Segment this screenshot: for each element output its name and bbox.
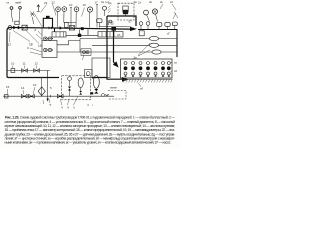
panel feet <box>125 75 170 76</box>
svg-text:тамб: тамб <box>15 1 22 5</box>
wire main supply pipe <box>7 28 132 78</box>
air valve circle b <box>146 22 150 30</box>
svg-text:19: 19 <box>38 44 42 48</box>
pump unit 3 <box>81 49 91 56</box>
shaft line 3 <box>57 51 177 53</box>
cooler box below pipe <box>52 32 66 37</box>
filter diamond <box>38 78 45 97</box>
bottle small <box>78 78 83 91</box>
svg-text:м: м <box>92 76 94 80</box>
coupling oval 3 <box>152 50 161 54</box>
wire bold drop from dashed box <box>107 16 136 26</box>
svg-text:15: 15 <box>6 85 10 89</box>
label 8 9 <box>27 28 37 50</box>
label 10 <box>69 3 73 7</box>
right tank top edge <box>138 30 177 58</box>
valve dark on pipe x61 <box>60 26 63 29</box>
label top-left pipes <box>6 1 22 5</box>
pump pair 2 <box>44 48 53 51</box>
svg-text:5: 5 <box>50 86 52 90</box>
wire return line above pipe <box>99 25 131 28</box>
svg-text:2к: 2к <box>160 0 164 4</box>
air valve circle a <box>139 22 143 30</box>
square valve row1 <box>11 69 15 73</box>
leaders to digits <box>43 96 78 105</box>
dashed box top <box>118 3 134 20</box>
bowtie valve 11 <box>22 69 28 73</box>
gauge 2 <box>62 7 67 23</box>
tank box center <box>92 58 110 78</box>
svg-text:9: 9 <box>27 46 29 50</box>
labels top right <box>138 0 174 4</box>
node junction on outlet <box>78 34 81 37</box>
dash label box bottom <box>108 91 126 100</box>
spring valve 3 <box>165 23 170 30</box>
svg-text:зб: зб <box>174 69 177 73</box>
gauge 5 <box>103 6 107 16</box>
wire pipe drop to pump box <box>41 28 43 41</box>
svg-text:22: 22 <box>52 0 56 4</box>
svg-text:✳: ✳ <box>49 103 52 107</box>
coupling oval 1 <box>149 36 158 40</box>
wire bold branch to panel top <box>114 28 116 65</box>
svg-text:8: 8 <box>35 28 37 32</box>
bowtie valve b2 <box>29 94 35 98</box>
stems row1 labels <box>13 66 37 69</box>
label 26 <box>117 33 121 37</box>
small marks above caption <box>49 103 75 110</box>
svg-text:2з: 2з <box>138 0 142 4</box>
svg-text:18: 18 <box>29 43 33 47</box>
svg-text:,: , <box>40 100 41 104</box>
gauges above tank: circle a <box>144 10 150 21</box>
node junction on main pipe <box>111 27 116 31</box>
drop arrow x48 <box>48 78 51 100</box>
bowtie valve 12 <box>34 69 40 73</box>
labels 10 11 12 <box>11 62 38 66</box>
label 2d <box>108 1 132 24</box>
leader lines left cluster <box>10 31 40 44</box>
leader top right <box>160 4 178 19</box>
valve under gauge <box>68 87 71 91</box>
wire bold elbow x54 <box>54 28 56 32</box>
arrowhead <box>47 99 49 102</box>
misc tiny marks <box>40 100 94 107</box>
wire arrow down to panel <box>113 61 119 67</box>
leader lines top labels 22 23 <box>35 4 56 27</box>
svg-text:2и: 2и <box>149 0 153 4</box>
flat box below pipe right <box>98 32 123 37</box>
gauge row: gauge 1 <box>56 7 61 28</box>
label 17 <box>8 43 42 49</box>
gauge stem x97 <box>96 5 98 28</box>
knob on loop <box>46 16 50 19</box>
panel box <box>121 59 173 78</box>
bowtie valve b3 <box>57 94 63 98</box>
valve V17 circle on pipe <box>8 26 12 30</box>
caption text block <box>5 116 176 145</box>
svg-text:4: 4 <box>67 106 69 110</box>
loop seal over pipe <box>43 18 52 28</box>
svg-text:23: 23 <box>44 1 48 5</box>
stems bottom labels <box>8 87 36 94</box>
small device box x97-102 <box>97 19 102 28</box>
label 3g <box>167 32 170 36</box>
vv device <box>102 94 109 97</box>
component box above valve <box>15 21 19 24</box>
throttle box above pipe x66 <box>65 22 69 27</box>
gauge stem x71 <box>70 8 72 28</box>
svg-text:10: 10 <box>11 62 15 66</box>
small circle below bold line <box>109 20 112 23</box>
pump in tank <box>85 70 93 78</box>
leader label 2v <box>138 43 150 56</box>
spring valve 2 <box>157 23 162 30</box>
bowtie valve b1 <box>21 94 27 98</box>
node tee on pipe x82 <box>81 27 84 30</box>
svg-text:12: 12 <box>35 62 39 66</box>
valve under large bottle <box>90 89 98 94</box>
step link pump line <box>57 39 80 53</box>
leader panel labels <box>138 62 173 87</box>
svg-text:4: 4 <box>61 106 63 110</box>
labels bottom row <box>6 83 52 90</box>
wire gauge manifold <box>64 21 77 23</box>
leader 19 <box>82 8 85 17</box>
label 19 top <box>83 3 87 7</box>
svg-text:2б: 2б <box>117 33 121 37</box>
label 2v <box>134 56 138 60</box>
svg-text:11: 11 <box>23 62 26 66</box>
spring valve 4 <box>172 22 177 30</box>
stem to bottom pipe <box>69 91 71 97</box>
labels 3o 3b <box>174 61 177 74</box>
label 23 <box>44 0 55 5</box>
valve dark bowtie on main pipe <box>13 26 19 30</box>
svg-text:2д: 2д <box>108 1 112 5</box>
gauge M1 top-left <box>10 7 13 22</box>
gauge b with cross <box>152 9 157 22</box>
wire cooler outlet line <box>66 29 98 36</box>
component with X on pipe x72 <box>69 26 74 30</box>
valve row 1 line <box>7 71 50 78</box>
svg-text:зо: зо <box>174 61 177 65</box>
shaft line 1 <box>80 38 177 40</box>
svg-text:2ж: 2ж <box>134 0 138 4</box>
svg-text:мман: мман <box>110 86 117 90</box>
gauge 4 <box>87 7 92 28</box>
svg-text:19: 19 <box>83 3 87 7</box>
svg-text:14: 14 <box>21 86 25 90</box>
svg-text:57: 57 <box>129 20 133 24</box>
hatch near label 2d <box>108 6 111 14</box>
pump unit box <box>42 41 57 58</box>
label near arrow box <box>92 76 117 90</box>
svg-text:2л: 2л <box>170 0 174 4</box>
bottle large <box>93 76 99 89</box>
svg-text:зГ: зГ <box>167 32 170 36</box>
svg-text:3: 3 <box>73 106 75 110</box>
leader label 6 <box>83 55 85 61</box>
wire arrow into right tank <box>130 27 137 31</box>
svg-text:і: і <box>93 103 94 107</box>
gauge 3 <box>74 7 79 28</box>
wire bold vertical to tank bottom <box>92 16 123 79</box>
panel columns <box>124 62 171 76</box>
wire arrow into panel <box>122 77 129 82</box>
pump pair 1 <box>44 37 53 40</box>
component box on pipe x24 <box>22 25 27 30</box>
pump leader labels <box>30 31 42 55</box>
dashed station box <box>62 76 91 100</box>
tank inlet square <box>139 31 144 36</box>
svg-text:13: 13 <box>33 83 37 87</box>
vent arrow symbol <box>37 5 40 12</box>
valve tick on pipe x50 <box>49 26 52 29</box>
bottom pipe <box>3 95 114 97</box>
svg-text:4: 4 <box>87 103 89 107</box>
inner rect of dashed box <box>123 6 128 16</box>
gauge in station <box>68 77 72 86</box>
label 17 top <box>95 0 110 4</box>
panel hatch base <box>123 79 173 83</box>
svg-text:зб: зб <box>140 87 143 91</box>
gauge M2 top-left <box>19 7 22 23</box>
svg-text:та: та <box>6 1 9 5</box>
svg-text:17: 17 <box>8 43 12 47</box>
marks near x110 <box>109 21 114 26</box>
svg-text:17: 17 <box>95 0 99 4</box>
coupling oval 2 <box>149 43 158 47</box>
label 2zh <box>134 0 138 4</box>
relief valve asterisk <box>30 12 35 25</box>
svg-text:10: 10 <box>69 3 73 7</box>
end square bottom left <box>5 94 8 98</box>
svg-text:ными клапанами; зи — горловина: ными клапанами; зи — горловина наливная;… <box>5 141 171 145</box>
valve under small bottle <box>79 91 82 95</box>
label 36 below panel <box>140 87 143 91</box>
shaft line 2 <box>92 44 177 46</box>
